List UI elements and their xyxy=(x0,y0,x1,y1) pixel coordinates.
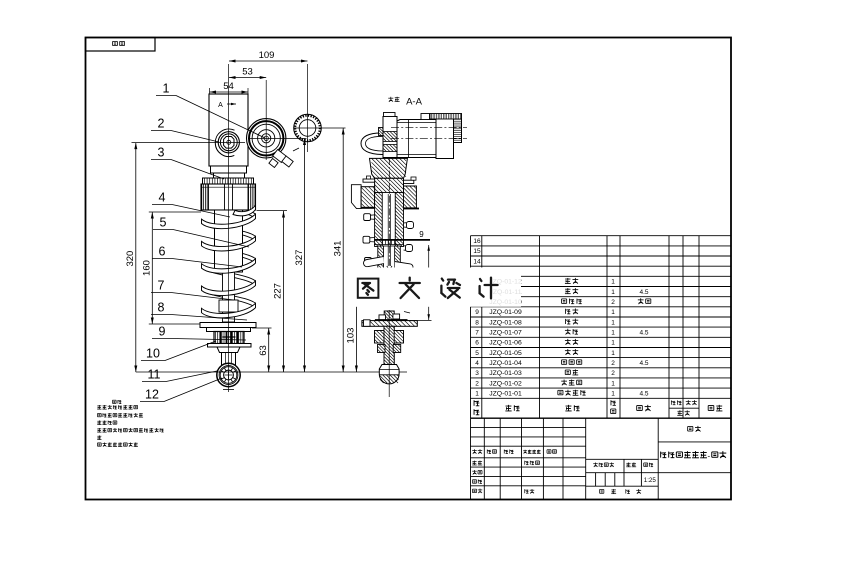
svg-text:JZQ-01-04: JZQ-01-04 xyxy=(489,360,522,367)
section: cylinder internal edges xyxy=(408,120,410,158)
knurled knob circle xyxy=(294,114,322,142)
watermark background box xyxy=(344,268,521,307)
title block texts xyxy=(472,449,477,454)
adjuster big circle xyxy=(247,119,286,158)
spring seat plate xyxy=(200,323,256,328)
dim 341 xyxy=(342,128,344,372)
svg-text:A-A: A-A xyxy=(406,97,423,108)
section: knurled cap xyxy=(454,114,462,143)
svg-text:7: 7 xyxy=(158,279,165,293)
svg-text:10: 10 xyxy=(146,347,160,361)
section: flange plates xyxy=(363,179,375,182)
svg-text:4.5: 4.5 xyxy=(639,391,648,398)
svg-text:1: 1 xyxy=(611,350,615,357)
dim 327 xyxy=(304,139,306,373)
svg-text:4.5: 4.5 xyxy=(639,289,648,296)
section lower: top small tabs xyxy=(379,315,386,320)
svg-text:3: 3 xyxy=(158,146,165,160)
svg-text:6: 6 xyxy=(159,245,166,259)
spring back strands xyxy=(202,198,256,308)
lock ring (thin knurled ring) xyxy=(203,178,254,184)
svg-text:1: 1 xyxy=(611,380,615,387)
section: tapered trunk xyxy=(370,158,408,178)
company cell xyxy=(688,426,693,431)
section: column strips xyxy=(375,193,383,247)
horizontal centerline knob + 341 extension xyxy=(294,127,346,129)
section: spring wire cuts left xyxy=(364,214,371,221)
svg-text:9: 9 xyxy=(159,325,166,339)
svg-text:2: 2 xyxy=(475,380,479,387)
svg-text:3: 3 xyxy=(475,370,479,377)
svg-text:1: 1 xyxy=(611,289,615,296)
horizontal centerline big circle + 327 extension xyxy=(248,138,307,140)
svg-text:327: 327 xyxy=(294,250,305,266)
spring front coils xyxy=(202,205,256,318)
svg-text:JZQ-01-03: JZQ-01-03 xyxy=(489,370,522,377)
svg-text:4.5: 4.5 xyxy=(639,330,648,337)
section lower: ball end xyxy=(379,365,399,384)
svg-text:160: 160 xyxy=(142,260,153,276)
svg-text:JZQ-01-09: JZQ-01-09 xyxy=(489,309,522,316)
eye circles xyxy=(218,132,239,153)
front view: eye boss arc xyxy=(215,129,234,157)
technical requirements notes xyxy=(112,400,116,403)
horizontal centerline eye + 320 extension xyxy=(132,142,246,144)
svg-text:JZQ-01-05: JZQ-01-05 xyxy=(489,350,522,357)
svg-text:4: 4 xyxy=(159,191,166,205)
svg-text:9: 9 xyxy=(419,230,424,239)
BOM parts table xyxy=(471,236,732,419)
svg-text:JZQ-01-07: JZQ-01-07 xyxy=(489,330,522,337)
svg-text:1: 1 xyxy=(611,340,615,347)
svg-text:14: 14 xyxy=(473,258,481,265)
front view: upper body xyxy=(209,94,248,166)
section: cap top band xyxy=(430,114,462,120)
knurled lower nut xyxy=(214,332,244,344)
piston rod lower xyxy=(223,272,235,322)
svg-text:320: 320 xyxy=(125,251,136,267)
dim 109 xyxy=(229,60,308,62)
svg-text:15: 15 xyxy=(473,248,481,255)
section lower: small blocks xyxy=(378,345,386,353)
section upper centerline xyxy=(388,158,390,270)
section: dome elbow xyxy=(361,133,384,155)
svg-text:11: 11 xyxy=(148,368,161,382)
svg-text:2: 2 xyxy=(158,117,165,131)
svg-text:5: 5 xyxy=(160,216,167,230)
svg-text:1: 1 xyxy=(611,319,615,326)
BOM header row xyxy=(474,400,479,406)
centerline main axis xyxy=(228,64,230,386)
hex cone xyxy=(217,347,240,353)
drawing title: fuhe jianzhenqi sheji - zongzhuang xyxy=(661,452,667,458)
svg-text:1: 1 xyxy=(163,82,170,96)
svg-text:109: 109 xyxy=(259,50,275,61)
svg-text:JZQ-01-11: JZQ-01-11 xyxy=(490,289,522,296)
svg-text:8: 8 xyxy=(475,319,479,326)
section: narrow strips below xyxy=(378,246,384,268)
section: bore + rod xyxy=(382,193,395,247)
svg-text:5: 5 xyxy=(475,350,479,357)
centerline big circle vertical xyxy=(265,80,267,160)
svg-text:4.5: 4.5 xyxy=(639,360,648,367)
svg-text:54: 54 xyxy=(223,81,234,92)
section label xyxy=(388,97,393,102)
svg-text:16: 16 xyxy=(473,238,481,245)
title block xyxy=(471,418,732,499)
svg-text:JZQ-01-08: JZQ-01-08 xyxy=(489,319,522,326)
svg-text:4: 4 xyxy=(475,360,479,367)
svg-text:53: 53 xyxy=(242,67,253,78)
section: right block xyxy=(404,186,417,208)
top-left drawing-number box xyxy=(86,38,156,52)
section: reservoir cylinder xyxy=(397,120,436,158)
body steps xyxy=(211,166,247,173)
section: central column upper xyxy=(375,178,404,192)
svg-text:1: 1 xyxy=(611,279,615,286)
section lower: rod xyxy=(384,311,394,366)
section lower: flange xyxy=(362,321,417,327)
section: neck nut ears xyxy=(379,128,384,136)
svg-text:1: 1 xyxy=(475,391,479,398)
centerline knob vertical/extension xyxy=(307,64,309,152)
section: reservoir mid ring xyxy=(436,115,454,159)
svg-text:12: 12 xyxy=(145,388,159,402)
svg-text:1: 1 xyxy=(611,309,615,316)
svg-text:-: - xyxy=(708,452,711,461)
svg-text:A: A xyxy=(218,102,223,109)
washer collar xyxy=(208,344,252,348)
dim 54 xyxy=(210,91,249,93)
section lower: rod mid hatched xyxy=(384,326,394,366)
svg-text:341: 341 xyxy=(332,241,343,257)
dim 227 xyxy=(283,211,285,372)
svg-text:7: 7 xyxy=(475,330,479,337)
section: seat line bold xyxy=(374,239,430,241)
svg-text:JZQ-01-10: JZQ-01-10 xyxy=(489,299,522,306)
svg-text:9: 9 xyxy=(475,309,479,316)
svg-text:JZQ-01-02: JZQ-01-02 xyxy=(489,380,522,387)
section: left bracket xyxy=(351,185,361,209)
section: neck column xyxy=(383,117,397,158)
svg-text:1:25: 1:25 xyxy=(644,477,657,484)
bottom extension baseline xyxy=(136,371,407,373)
clamp bits lower-right of big circle xyxy=(269,149,293,167)
dim 53 xyxy=(229,77,266,79)
svg-text:2: 2 xyxy=(611,370,615,377)
lower eye xyxy=(217,363,240,386)
svg-text:103: 103 xyxy=(346,328,357,344)
dim 320 xyxy=(135,143,137,372)
watermark text tu wen she ji xyxy=(358,278,498,299)
section lower: nut xyxy=(375,331,385,344)
section: spring wire cuts right xyxy=(407,222,414,229)
dim 160 xyxy=(151,212,153,324)
svg-text:2: 2 xyxy=(611,360,615,367)
svg-text:JZQ-01-06: JZQ-01-06 xyxy=(489,340,522,347)
damper cylinder xyxy=(215,210,243,272)
svg-text:63: 63 xyxy=(258,345,269,356)
svg-text:JZQ-01-01: JZQ-01-01 xyxy=(489,391,522,398)
section: top tab xyxy=(421,114,430,120)
lower neck xyxy=(222,353,236,368)
adjusting collar xyxy=(201,184,256,210)
svg-text:2: 2 xyxy=(611,299,615,306)
dim 63 xyxy=(268,328,270,372)
dim 103 xyxy=(355,297,357,372)
section: left block xyxy=(361,187,375,208)
svg-text:6: 6 xyxy=(475,340,479,347)
svg-text:1: 1 xyxy=(611,330,615,337)
border frame xyxy=(86,38,732,500)
svg-text:227: 227 xyxy=(273,283,284,299)
svg-text:1: 1 xyxy=(611,391,615,398)
svg-text:8: 8 xyxy=(158,301,165,315)
section lower centerline xyxy=(388,310,390,397)
section: end coil loops xyxy=(364,257,384,267)
section: reservoir centerlines xyxy=(391,127,467,129)
